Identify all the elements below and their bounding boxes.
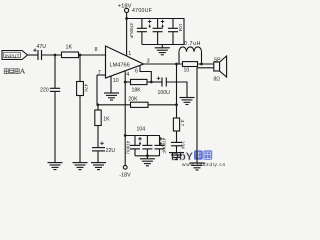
svg-text:47U: 47U	[37, 44, 47, 50]
capacitor 104 #2 (bottom middle)	[142, 136, 152, 156]
inductor L1 0.7uH	[179, 41, 202, 64]
label: signal input (Chinese, drawn)	[4, 69, 24, 74]
wire: output row to speaker	[144, 63, 215, 65]
capacitor 4700UF #2	[153, 19, 163, 45]
pin 10 stub	[111, 76, 119, 93]
resistor 10 (parallel with L1)	[183, 62, 198, 74]
wire: -18V bottom rail	[135, 155, 160, 157]
capacitor C 220 (input shunt)	[40, 88, 60, 94]
svg-text:4: 4	[126, 72, 129, 78]
wire: 22U to ground	[97, 151, 99, 163]
resistor 20K (feedback)	[128, 97, 176, 108]
terminal -18V	[119, 165, 131, 178]
ground (22U)	[91, 163, 106, 170]
svg-text:104: 104	[177, 24, 183, 32]
wire: bottom bank to ground	[146, 156, 148, 159]
wire: -18V top rail	[125, 135, 160, 137]
ground (220)	[48, 163, 63, 170]
capacitor C 100U (mute)	[157, 77, 170, 97]
polarity mark	[148, 20, 152, 28]
wire: 4.7 to 104	[176, 131, 178, 142]
svg-text:1K: 1K	[103, 117, 110, 123]
node: +18V rail junction	[125, 17, 128, 20]
ground (zobel)	[169, 153, 184, 160]
resistor 4.7 (zobel)	[173, 118, 185, 131]
svg-text:10: 10	[113, 78, 119, 84]
speaker SP	[214, 56, 227, 83]
svg-text:4700U: 4700U	[126, 141, 131, 154]
svg-text:LM4766: LM4766	[110, 62, 130, 68]
svg-text:SP: SP	[214, 57, 221, 63]
svg-text:18K: 18K	[132, 87, 142, 93]
svg-text:4.7: 4.7	[179, 120, 185, 127]
polarity mark	[159, 137, 163, 145]
svg-text:+18V: +18V	[118, 3, 132, 9]
wire: C47U to R1K	[42, 54, 62, 56]
wire: R1K to op-amp pin 8	[79, 54, 106, 56]
svg-text:-18V: -18V	[119, 173, 131, 179]
svg-text:20K: 20K	[128, 97, 138, 103]
node: rail / 1K junction	[96, 103, 99, 106]
svg-text:INPUT: INPUT	[5, 53, 20, 58]
terminal +18V	[118, 3, 132, 18]
node: pin4 / 18K junction	[124, 81, 127, 84]
wire: 220 to ground	[54, 91, 56, 162]
pin 7 stub	[97, 70, 106, 105]
ground (100U)	[180, 98, 195, 105]
resistor 18K (mute)	[125, 79, 162, 93]
connector J1 INPUT	[2, 51, 28, 60]
wire: speaker return	[197, 68, 214, 163]
polarity mark	[161, 20, 165, 28]
svg-text:4700UF: 4700UF	[132, 8, 152, 14]
svg-text:0.7uH: 0.7uH	[184, 41, 201, 47]
capacitor 4700UF #1	[129, 19, 147, 45]
pin 1 (V+) stub	[127, 19, 132, 58]
svg-text:4700UF: 4700UF	[161, 138, 166, 154]
pin 4 stub: long wire to -18V	[125, 71, 129, 166]
node: output junction	[175, 63, 178, 66]
ground (top bank)	[155, 48, 170, 55]
wire: 47K to ground	[79, 96, 81, 163]
svg-text:8Ω: 8Ω	[214, 77, 221, 83]
node: -18V rail junction	[124, 134, 127, 137]
ground (47K)	[73, 163, 88, 170]
capacitor 4700UF #3 (bottom right)	[155, 136, 167, 156]
wire: top bank to ground	[161, 45, 163, 48]
svg-text:100U: 100U	[158, 90, 171, 96]
capacitor C 22U	[92, 142, 115, 155]
wire: input tag to C 47U	[28, 54, 39, 56]
wire: node B down to 47K	[79, 55, 81, 82]
wire: 104 to ground	[176, 146, 178, 153]
capacitor 104 (zobel)	[171, 141, 186, 149]
node: 18K / 100U / pin6 junction	[150, 81, 153, 84]
svg-text:8: 8	[95, 47, 98, 53]
resistor 1K (input series)	[62, 45, 79, 58]
node: junction with 220 shunt	[54, 54, 57, 57]
svg-text:220: 220	[40, 88, 49, 94]
wire: feedback rail	[97, 104, 131, 106]
polarity mark	[138, 137, 142, 145]
svg-text:104: 104	[180, 141, 186, 149]
svg-text:6: 6	[135, 68, 138, 74]
capacitor C 47U (input coupling)	[33, 44, 46, 60]
svg-text:22U: 22U	[106, 148, 116, 154]
node: bottom rail / ground junction	[146, 154, 149, 157]
resistor 47K (bias)	[77, 82, 89, 96]
node: inductor right junction	[200, 63, 203, 66]
svg-text:1K: 1K	[66, 45, 73, 51]
node: junction with 47K	[79, 54, 82, 57]
svg-text:7: 7	[98, 70, 101, 76]
ground (bottom bank)	[140, 159, 155, 166]
node: 20K / zobel junction	[175, 103, 178, 106]
op-amp U1 LM4766	[106, 46, 144, 78]
svg-text:104: 104	[137, 127, 146, 133]
capacitor 104 (top bank)	[168, 19, 183, 45]
svg-text:1: 1	[128, 51, 131, 57]
wire: output vertical to zobel	[176, 64, 178, 118]
capacitor 4700U #1 (bottom)	[126, 136, 140, 156]
ground (speaker)	[190, 163, 205, 170]
wire: 100U to ground	[166, 82, 187, 98]
svg-text:47K: 47K	[84, 84, 89, 93]
ground (pin 10)	[104, 93, 119, 100]
resistor 1K (gain, to ground)	[95, 105, 110, 148]
svg-text:4700UF: 4700UF	[129, 23, 134, 39]
watermark DIY logo	[171, 150, 226, 167]
pin 6 stub	[135, 66, 151, 83]
wire: +18V rail	[127, 19, 184, 45]
svg-text:10: 10	[184, 68, 190, 74]
wire: down to capacitor 220	[54, 55, 56, 88]
